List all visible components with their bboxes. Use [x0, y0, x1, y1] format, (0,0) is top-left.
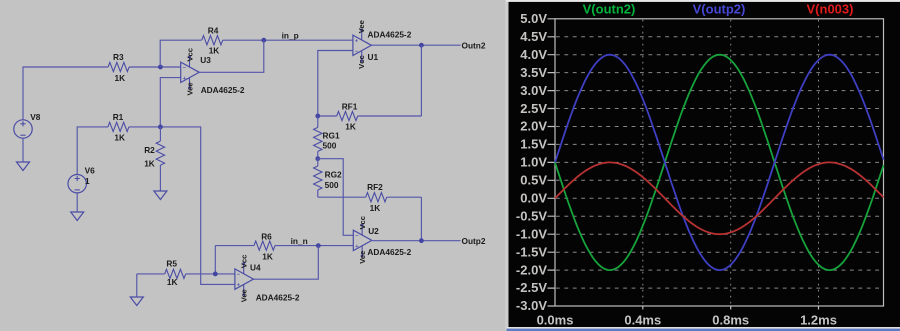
svg-text:V(n003): V(n003): [807, 1, 854, 16]
svg-text:R5: R5: [166, 258, 177, 268]
wire R1 to long vertical down to U4: [129, 127, 235, 285]
node in_n junction: [316, 243, 321, 248]
resistor R6 1K: [215, 232, 353, 262]
resistor RF1 1K: [318, 102, 422, 132]
svg-text:1K: 1K: [115, 73, 126, 83]
svg-text:Outn2: Outn2: [462, 41, 486, 51]
svg-text:-2.0V: -2.0V: [516, 262, 547, 277]
svg-text:Outp2: Outp2: [462, 236, 486, 246]
svg-text:1K: 1K: [345, 122, 356, 132]
svg-text:V(outp2): V(outp2): [693, 1, 746, 16]
svg-text:in_p: in_p: [282, 31, 299, 41]
node U3 inverting input junction: [158, 65, 163, 70]
wire U1 output to Outn2: [371, 44, 460, 46]
svg-text:R2: R2: [144, 145, 155, 155]
svg-text:RF2: RF2: [367, 182, 383, 192]
svg-text:Vee: Vee: [357, 20, 366, 33]
ground below V6: [71, 193, 84, 221]
svg-text:3.0V: 3.0V: [520, 83, 547, 98]
svg-text:RG1: RG1: [323, 131, 340, 141]
svg-text:500: 500: [325, 180, 339, 190]
svg-text:Vee: Vee: [239, 289, 248, 302]
svg-text:0.0V: 0.0V: [520, 191, 547, 206]
op-amp U1 ADA4625-2: [353, 20, 412, 69]
svg-text:0.5V: 0.5V: [520, 173, 547, 188]
svg-text:-1.0V: -1.0V: [516, 226, 547, 241]
node in_p junction: [261, 38, 266, 43]
svg-text:0.8ms: 0.8ms: [712, 313, 749, 328]
resistor RF2 1K: [318, 182, 422, 213]
voltage source V8: [14, 112, 41, 138]
svg-text:U2: U2: [368, 226, 379, 236]
op-amp U2 ADA4625-2: [353, 216, 411, 264]
svg-text:V8: V8: [30, 112, 41, 122]
oscilloscope panel background: [505, 0, 509, 331]
node R1 R2 junction: [158, 125, 163, 130]
svg-text:1K: 1K: [144, 159, 155, 169]
wire U1 inverting input to RF1 node: [318, 51, 353, 117]
wire R3 to U3 inverting input: [129, 66, 181, 68]
wire V8 top to R3 row: [23, 67, 108, 120]
wire R4 to in_p node and U1: [223, 39, 353, 41]
svg-text:U3: U3: [200, 55, 211, 65]
ground at R5 left: [130, 274, 143, 306]
wire RF2 down to Outp2: [420, 197, 422, 241]
svg-text:RF1: RF1: [342, 102, 358, 112]
svg-text:+: +: [355, 38, 358, 44]
wire feedback vertical R4 left: [160, 40, 201, 67]
svg-text:500: 500: [323, 141, 337, 151]
svg-text:-2.5V: -2.5V: [516, 280, 547, 295]
ground below V8: [17, 138, 30, 170]
svg-text:+: +: [183, 76, 186, 82]
resistor R4 1K: [202, 26, 223, 56]
resistor R5 1K: [137, 258, 235, 287]
plot box border: [555, 19, 884, 306]
svg-text:4.5V: 4.5V: [520, 29, 547, 44]
svg-text:ADA4625-2: ADA4625-2: [201, 85, 245, 95]
wire R6 left down to R5 row: [214, 246, 216, 274]
svg-text:R6: R6: [261, 232, 272, 242]
svg-text:−: −: [355, 234, 358, 240]
svg-text:U4: U4: [250, 263, 261, 273]
svg-text:3.5V: 3.5V: [520, 65, 547, 80]
svg-text:R3: R3: [113, 52, 124, 62]
svg-text:5.0V: 5.0V: [520, 11, 547, 26]
svg-text:1.2ms: 1.2ms: [800, 313, 837, 328]
wire V6 to R1 row: [77, 127, 108, 175]
svg-text:1: 1: [85, 176, 90, 186]
plot grid: [556, 37, 884, 288]
wire U3 output up to in_p: [199, 40, 264, 72]
op-amp U3 ADA4625-2: [181, 48, 245, 96]
resistor R1 1K: [108, 112, 129, 142]
svg-text:Vee: Vee: [358, 251, 367, 264]
svg-text:0.4ms: 0.4ms: [624, 313, 661, 328]
svg-text:RG2: RG2: [325, 170, 342, 180]
voltage source V6: [68, 165, 95, 193]
y axis labels: [516, 11, 547, 313]
node R5 R6 junction: [213, 272, 218, 277]
svg-text:Vee: Vee: [185, 82, 194, 95]
svg-text:+: +: [237, 283, 240, 289]
svg-text:4.0V: 4.0V: [520, 47, 547, 62]
wire U4 output up to in_n: [253, 246, 318, 280]
svg-text:R1: R1: [113, 112, 124, 122]
node Outn2 feedback junction: [419, 43, 424, 48]
svg-text:1.5V: 1.5V: [520, 137, 547, 152]
svg-text:−: −: [183, 65, 186, 71]
svg-text:ADA4625-2: ADA4625-2: [367, 247, 411, 257]
svg-text:1K: 1K: [167, 277, 178, 287]
svg-text:Vcc: Vcc: [239, 255, 248, 269]
svg-text:V6: V6: [85, 165, 96, 175]
waveform V(n003) red: [555, 162, 884, 234]
svg-text:-3.0V: -3.0V: [516, 298, 547, 313]
svg-text:Vcc: Vcc: [358, 216, 367, 230]
svg-text:−: −: [237, 272, 240, 278]
resistor RG2 500: [314, 159, 342, 198]
svg-text:U1: U1: [368, 52, 379, 62]
resistor RG1 500: [314, 116, 340, 159]
svg-text:+: +: [355, 244, 358, 250]
wire U2 output to Outp2: [372, 240, 460, 242]
svg-text:2.0V: 2.0V: [520, 119, 547, 134]
svg-text:2.5V: 2.5V: [520, 101, 547, 116]
x axis labels: [537, 313, 837, 328]
svg-text:0.0ms: 0.0ms: [537, 313, 574, 328]
waveform V(outp2) blue: [555, 55, 884, 270]
svg-text:V(outn2): V(outn2): [583, 1, 636, 16]
wire U3 non-inverting input from R1 node: [160, 78, 180, 127]
resistor R2 1K: [144, 127, 164, 169]
node Outp2 junction: [419, 238, 424, 243]
svg-text:ADA4625-2: ADA4625-2: [368, 30, 412, 40]
svg-text:-0.5V: -0.5V: [516, 208, 547, 223]
svg-text:1K: 1K: [114, 133, 125, 143]
svg-text:R4: R4: [208, 26, 219, 36]
svg-text:Vcc: Vcc: [357, 55, 366, 69]
svg-text:in_n: in_n: [291, 236, 308, 246]
waveform V(outn2) green: [555, 55, 884, 270]
node RF1 RG1 junction: [315, 114, 320, 119]
resistor R3 1K: [108, 52, 129, 83]
svg-text:Vcc: Vcc: [185, 48, 194, 62]
wire midpoint to U2 non-inverting input: [318, 159, 354, 236]
ground below R2: [154, 165, 167, 199]
op-amp U4 ADA4625-2: [235, 255, 300, 303]
svg-text:ADA4625-2: ADA4625-2: [256, 292, 300, 302]
wire Outn2 down to RF1: [420, 45, 422, 116]
svg-text:1K: 1K: [370, 203, 381, 213]
node RG1 RG2 midpoint: [315, 156, 320, 161]
svg-text:-1.5V: -1.5V: [516, 244, 547, 259]
svg-text:1.0V: 1.0V: [520, 155, 547, 170]
svg-text:1K: 1K: [262, 252, 273, 262]
svg-text:−: −: [355, 49, 358, 55]
